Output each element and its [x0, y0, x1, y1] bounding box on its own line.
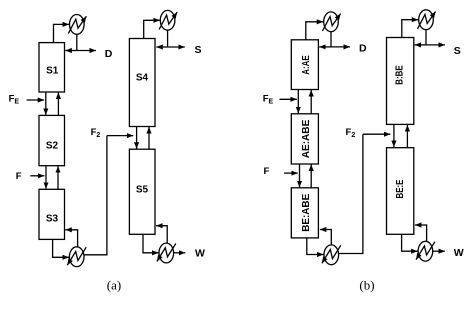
- svg-text:S: S: [195, 44, 202, 56]
- svg-text:W: W: [195, 248, 205, 260]
- svg-text:(a): (a): [107, 278, 121, 293]
- svg-text:S1: S1: [46, 66, 59, 77]
- svg-text:AE:ABE: AE:ABE: [301, 119, 312, 158]
- svg-text:S4: S4: [136, 73, 149, 84]
- svg-text:F2: F2: [346, 127, 356, 139]
- svg-text:S3: S3: [46, 214, 59, 225]
- svg-text:S2: S2: [46, 141, 59, 152]
- svg-text:BE:E: BE:E: [395, 179, 406, 198]
- svg-text:S: S: [454, 45, 461, 57]
- svg-text:FE: FE: [263, 94, 274, 106]
- svg-text:F: F: [264, 166, 270, 177]
- svg-text:S5: S5: [136, 185, 149, 196]
- svg-text:D: D: [359, 43, 367, 55]
- svg-text:D: D: [105, 48, 113, 60]
- svg-text:F2: F2: [91, 127, 101, 139]
- svg-text:A:AE: A:AE: [301, 55, 312, 75]
- svg-text:B:BE: B:BE: [395, 65, 406, 85]
- svg-text:(b): (b): [359, 278, 374, 293]
- svg-text:BE:ABE: BE:ABE: [301, 193, 312, 231]
- svg-text:FE: FE: [9, 94, 20, 106]
- svg-text:F: F: [16, 171, 22, 182]
- svg-text:W: W: [454, 247, 464, 259]
